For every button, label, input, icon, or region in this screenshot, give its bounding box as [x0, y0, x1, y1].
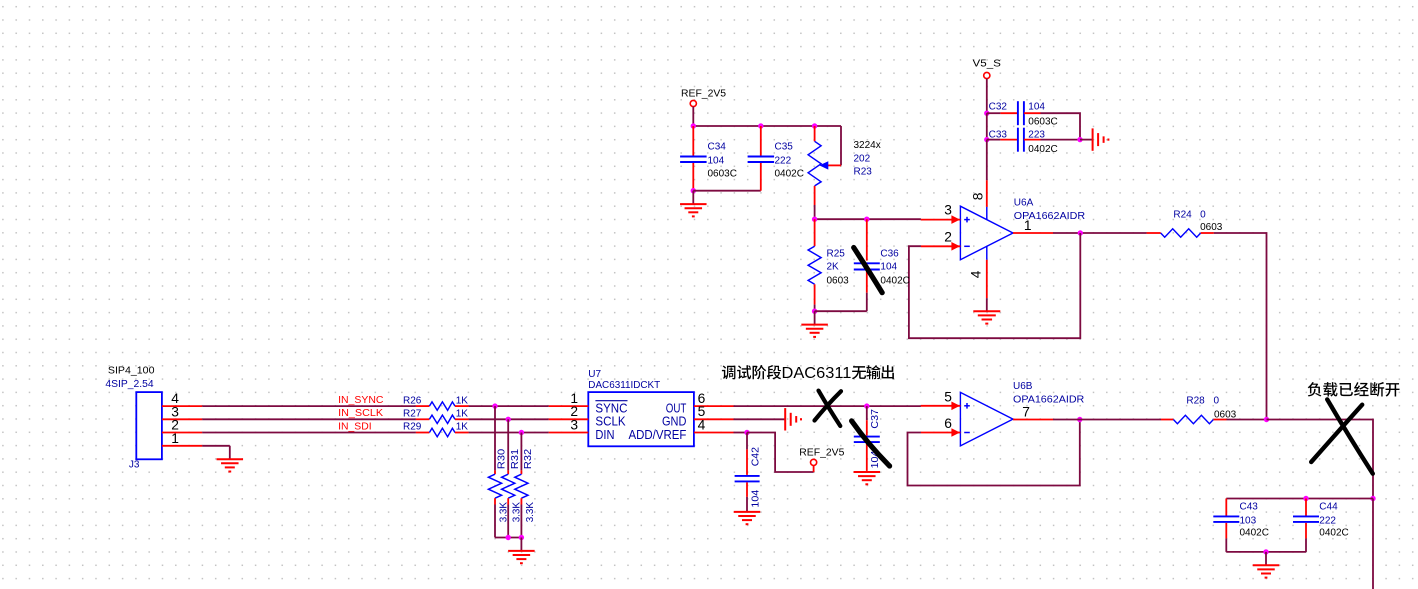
svg-text:C42: C42: [751, 447, 762, 467]
svg-text:R29: R29: [403, 422, 422, 433]
svg-text:104: 104: [880, 262, 897, 273]
svg-text:R23: R23: [854, 167, 873, 178]
svg-text:3: 3: [944, 203, 952, 218]
svg-text:104: 104: [1028, 101, 1045, 112]
svg-text:104: 104: [751, 489, 762, 507]
svg-text:3: 3: [570, 417, 578, 432]
svg-text:C43: C43: [1240, 502, 1259, 513]
svg-text:7: 7: [1022, 404, 1030, 419]
svg-text:8: 8: [970, 192, 985, 200]
svg-text:0603C: 0603C: [1028, 117, 1057, 128]
svg-text:C37: C37: [870, 409, 881, 429]
svg-text:DAC6311IDCKT: DAC6311IDCKT: [588, 380, 660, 391]
svg-text:C44: C44: [1319, 502, 1338, 513]
svg-text:R32: R32: [523, 448, 534, 469]
svg-text:C34: C34: [708, 142, 727, 153]
svg-text:0: 0: [1214, 396, 1220, 407]
svg-text:ADD/VREF: ADD/VREF: [629, 427, 687, 442]
svg-text:REF_2V5: REF_2V5: [681, 88, 727, 99]
svg-text:0402C: 0402C: [775, 169, 804, 180]
svg-text:4: 4: [698, 417, 706, 432]
svg-text:0402C: 0402C: [1319, 528, 1348, 539]
svg-text:2K: 2K: [827, 262, 840, 273]
svg-text:C32: C32: [989, 101, 1008, 112]
svg-text:1: 1: [171, 431, 179, 446]
svg-text:DIN: DIN: [595, 427, 614, 442]
svg-text:6: 6: [944, 416, 952, 431]
svg-text:222: 222: [1319, 515, 1336, 526]
svg-text:0603: 0603: [1214, 409, 1237, 420]
svg-text:0: 0: [1200, 209, 1206, 220]
svg-text:1: 1: [1024, 218, 1032, 233]
svg-text:0603C: 0603C: [708, 169, 737, 180]
svg-text:V5_S: V5_S: [973, 59, 1002, 70]
svg-text:R27: R27: [403, 409, 422, 420]
svg-text:1K: 1K: [456, 409, 469, 420]
svg-text:U7: U7: [588, 369, 601, 380]
svg-text:U6A: U6A: [1014, 198, 1034, 209]
svg-text:C33: C33: [989, 130, 1008, 141]
svg-text:1K: 1K: [456, 395, 469, 406]
svg-text:R30: R30: [497, 448, 508, 469]
svg-text:R28: R28: [1186, 396, 1205, 407]
svg-text:0402C: 0402C: [1240, 528, 1269, 539]
svg-text:222: 222: [775, 156, 792, 167]
svg-text:IN_SDI: IN_SDI: [338, 421, 372, 432]
svg-text:IN_SCLK: IN_SCLK: [338, 408, 383, 419]
svg-text:104: 104: [708, 156, 725, 167]
svg-text:IN_SYNC: IN_SYNC: [338, 395, 383, 406]
svg-text:J3: J3: [129, 460, 140, 471]
svg-text:5: 5: [944, 389, 952, 404]
svg-text:R25: R25: [827, 249, 846, 260]
svg-text:0603: 0603: [1200, 222, 1223, 233]
svg-text:R26: R26: [403, 395, 422, 406]
svg-text:R24: R24: [1173, 209, 1192, 220]
svg-text:SIP4_100: SIP4_100: [108, 366, 155, 377]
svg-text:R31: R31: [510, 448, 521, 469]
svg-text:4SIP_2.54: 4SIP_2.54: [105, 379, 154, 390]
svg-text:4: 4: [969, 270, 984, 278]
svg-text:3224x: 3224x: [854, 140, 881, 151]
svg-text:DAC6311: DAC6311: [782, 365, 852, 382]
svg-text:103: 103: [1240, 515, 1257, 526]
svg-text:2: 2: [944, 229, 952, 244]
svg-text:0603: 0603: [827, 275, 850, 286]
svg-text:3.3K: 3.3K: [525, 502, 536, 523]
svg-text:0402C: 0402C: [1028, 144, 1057, 155]
svg-text:REF_2V5: REF_2V5: [799, 447, 845, 458]
svg-text:202: 202: [854, 153, 871, 164]
svg-text:C35: C35: [775, 142, 794, 153]
svg-text:1K: 1K: [456, 422, 469, 433]
svg-text:C36: C36: [880, 249, 899, 260]
svg-text:U6B: U6B: [1013, 381, 1033, 392]
svg-text:0402C: 0402C: [880, 275, 909, 286]
svg-text:223: 223: [1028, 130, 1045, 141]
